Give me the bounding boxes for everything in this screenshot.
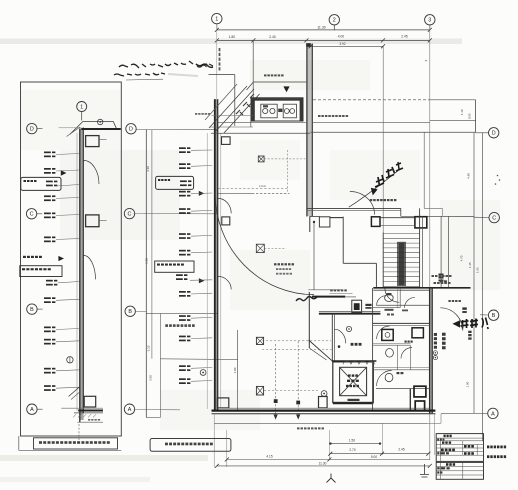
plan left inner line lower [159, 313, 161, 417]
hatch under ground [73, 414, 76, 417]
bolt note marks [23, 256, 26, 258]
south wall inner line [212, 413, 436, 415]
L leader dashed line [218, 188, 287, 190]
panel bottom band left edge [18, 436, 20, 450]
hall east wall lower [308, 292, 310, 348]
svg-text:2.45: 2.45 [401, 35, 408, 39]
toilet double line y367 [373, 367, 430, 369]
right dim vertical 2 [482, 133, 484, 441]
front wall thin segment [345, 296, 356, 298]
dashed drop v2 [297, 341, 299, 417]
svg-text:L=1m: L=1m [259, 184, 267, 188]
row marker A right [488, 408, 498, 418]
island thin line [308, 289, 342, 291]
lobby door arc [334, 329, 345, 343]
leader p7 [190, 279, 212, 282]
right corridor door arc [440, 308, 463, 331]
floor line 3 [211, 132, 310, 134]
attention note 1 arrow [371, 188, 378, 196]
diamond v2 [296, 401, 300, 405]
left panel label ticks r11 [44, 368, 51, 370]
leader r10 [56, 341, 80, 342]
left panel border [21, 82, 122, 436]
corridor wall C row upper [307, 207, 401, 209]
handwritten area number [296, 297, 317, 302]
row marker C mid [124, 208, 134, 218]
corridor door arc C [350, 191, 375, 214]
EV label text [348, 374, 351, 376]
svg-text:1.50: 1.50 [349, 438, 355, 442]
right dim vertical 1 [473, 133, 475, 414]
ramp diagonal 2 [216, 89, 254, 131]
dashed opening line h2 [262, 349, 332, 351]
front wall thick segment [312, 296, 345, 298]
bottom closure left margin [146, 417, 160, 419]
svg-text:3.92: 3.92 [339, 42, 345, 46]
left panel title box [34, 438, 118, 449]
toilet door arc 5 [401, 348, 412, 359]
svg-text:11.30: 11.30 [319, 462, 327, 466]
svg-text:4.45: 4.45 [466, 173, 470, 179]
toilet door arc 2 [377, 326, 390, 339]
glass thin line [76, 133, 78, 411]
panel bottom band line [19, 449, 122, 451]
toilet west wall [372, 288, 374, 410]
hall big door arc [215, 193, 314, 294]
grid bubble 1 [212, 13, 222, 23]
left panel label ticks r8 [44, 297, 51, 299]
EV cross diagonal 1 [340, 367, 367, 395]
damper box SW1 [256, 337, 263, 344]
row marker A left [27, 404, 37, 414]
ticks below box2 [46, 280, 53, 282]
EV door sill marks [348, 399, 360, 401]
leader p8 [191, 292, 212, 295]
ground symbol 1 [327, 474, 336, 483]
svg-text:4.15: 4.15 [266, 455, 272, 459]
ground symbol 3 [420, 464, 429, 477]
toilet east wall dark band [430, 288, 433, 413]
left panel label ticks r10 [44, 339, 51, 341]
extension tick box at wall top [306, 43, 311, 47]
ground line thick [61, 407, 103, 409]
row marker B right [488, 310, 498, 320]
washbasin dark box [382, 329, 393, 340]
column C1 [319, 217, 330, 227]
stair side labels [432, 275, 435, 277]
handwritten mark upper left [197, 65, 207, 67]
svg-text:5.00: 5.00 [371, 455, 377, 459]
plan label ticks p8 [179, 291, 186, 293]
scan streak top [0, 39, 462, 45]
svg-text:C: C [128, 212, 132, 218]
plan D-row leader line [136, 129, 218, 131]
roof access box outline [209, 74, 235, 76]
stair center strip border [398, 242, 406, 285]
arrow marker 2 [58, 256, 64, 261]
wall interior face line [220, 133, 222, 408]
ticks in box1 [46, 181, 53, 183]
corridor east of stair v1 [440, 216, 442, 287]
handwritten note line1 [119, 64, 155, 68]
svg-text:1.65: 1.65 [476, 267, 480, 273]
svg-text:B: B [492, 313, 496, 319]
leader p3 [191, 192, 212, 195]
right small top text [440, 280, 443, 282]
machine fixture group 2 [283, 104, 296, 118]
west wall door arc 1 [218, 198, 231, 213]
dim line third tier [311, 45, 384, 47]
svg-text:1.00: 1.00 [233, 367, 237, 373]
dashed centerline below wall [78, 424, 80, 440]
panel grid circle small [98, 119, 103, 124]
wall top cap trapezoid [70, 122, 117, 135]
row marker A mid [124, 404, 134, 414]
column S mid hollow [319, 397, 328, 408]
handwritten note underline [126, 78, 163, 81]
arrow marker plan 2 [199, 278, 205, 283]
fan box upper [86, 136, 99, 147]
east wall segment upper right [423, 132, 425, 208]
scan streak bottom2 [0, 477, 150, 482]
machine room right dark band [300, 98, 303, 121]
leader p10 [191, 337, 212, 340]
leader p9 [191, 316, 212, 319]
east upper room line [430, 120, 476, 122]
duct side marks [365, 304, 371, 306]
svg-text:1: 1 [215, 17, 218, 23]
leader r6 [56, 239, 80, 240]
duct box DS [352, 300, 362, 312]
plan label ticks p11 [179, 365, 186, 367]
plan label ticks p1 [179, 147, 186, 149]
room divider vertical [237, 330, 239, 410]
ticks in plan box1 [180, 180, 187, 182]
stair treads [383, 233, 419, 235]
dashed opening line h1 [262, 340, 331, 342]
leader r3 [56, 185, 80, 187]
exhaust tower label [318, 115, 321, 117]
svg-text:1.50: 1.50 [145, 258, 149, 264]
machine connector marks [278, 109, 282, 112]
toilet partition y388 [376, 388, 430, 390]
plan left edge line [145, 130, 147, 418]
left panel label ticks r5 [44, 213, 51, 215]
svg-text:A: A [128, 407, 132, 413]
corridor wall step [400, 208, 402, 216]
wall between C2 C3 [380, 217, 415, 219]
east wall top verticals [306, 44, 308, 217]
WC oval 2 [386, 349, 394, 358]
leader p12 [191, 380, 212, 383]
wall segment C1 to stair [330, 217, 343, 219]
ramp diagonal 1 [209, 86, 247, 128]
grid bubble 2 [329, 15, 339, 25]
east corridor mid line [313, 122, 430, 124]
damper box SW2 [256, 386, 263, 395]
diamond v1 [274, 399, 278, 403]
toilet partition y305 [376, 304, 429, 306]
ramp diagonal 3 [224, 94, 260, 133]
svg-text:1: 1 [80, 104, 83, 110]
dim line second tier [217, 39, 430, 41]
toilet partition y345 [373, 344, 411, 346]
right rotated tiny text 2 [468, 331, 471, 333]
dim extension stairline [381, 423, 383, 455]
machine room west wall upper [252, 40, 254, 97]
landing thick wall [373, 287, 470, 289]
machine label row [264, 74, 267, 76]
corridor wall C row right [401, 215, 474, 217]
plan label ticks p3 [179, 191, 186, 193]
attention note right characters [461, 319, 469, 329]
right tiny marks [439, 274, 444, 276]
leader p2 [191, 165, 212, 168]
right rotated tiny text 1 [442, 333, 446, 336]
arrow v1 [274, 415, 278, 420]
left panel label ticks r9 [44, 327, 51, 329]
table2 texts [446, 463, 448, 466]
below-ground dash line [77, 421, 103, 423]
dim circles row [331, 443, 381, 445]
svg-text:C: C [492, 216, 496, 222]
svg-text:1.15: 1.15 [468, 262, 472, 268]
arrow v2 [296, 415, 300, 420]
small right corner lines [424, 207, 442, 209]
leader p1 [191, 149, 212, 151]
island wall label [330, 289, 333, 291]
leader A row to plan [134, 409, 180, 411]
main west wall outer [214, 99, 216, 411]
table1 texts [444, 435, 446, 438]
dim extension right [434, 414, 436, 455]
damper box upper with X [258, 156, 264, 162]
text below wall [297, 427, 300, 429]
leader r4 [56, 197, 80, 200]
grid bubble 1 left panel [77, 102, 87, 112]
south wall thick [212, 409, 436, 411]
side annotation 1 [487, 446, 489, 449]
row marker B left [27, 304, 37, 314]
east corridor top line [313, 99, 430, 101]
curtain wall mullion left line [79, 129, 81, 423]
main west wall dark band [214, 99, 218, 410]
hall label text [351, 343, 354, 346]
left panel label ticks r4 [44, 195, 51, 197]
south east step [427, 422, 441, 424]
plan label box 1 [156, 176, 194, 189]
plan label ticks p9 [179, 315, 186, 317]
column C3 dark [415, 217, 427, 228]
east room line y132 [311, 131, 476, 133]
toilet door arc 3 [377, 371, 392, 387]
dim row total [217, 465, 430, 467]
circle dot symbol lobby [346, 326, 351, 331]
side annotation 2 [487, 455, 489, 458]
hall diagonal wall [309, 340, 332, 361]
EV cab box [340, 367, 367, 395]
attention note right arrowhead [452, 320, 460, 327]
grid1 vertical label column [216, 25, 218, 100]
svg-text:B: B [128, 309, 132, 315]
row marker D right [489, 128, 499, 138]
machine room top dark band [251, 98, 302, 101]
grid line 2 upper segment [382, 46, 384, 232]
arrow marker plan 1 [199, 191, 204, 196]
svg-text:1.10: 1.10 [460, 109, 464, 115]
plan small text row [165, 324, 168, 327]
base detail box [84, 396, 96, 407]
WC oval 1 [385, 294, 394, 301]
dashed line from damper mid [264, 247, 286, 249]
legend table 2 [436, 462, 483, 479]
row marker B mid [125, 306, 135, 316]
svg-text:A: A [491, 411, 495, 417]
ramp rotated text [236, 94, 254, 115]
dim row 2 [330, 453, 428, 455]
svg-text:D: D [129, 127, 133, 133]
stair east wall [419, 208, 421, 288]
plan label ticks p6 [179, 250, 186, 252]
attention note 1 handwritten [375, 175, 384, 187]
stair landing wall [343, 262, 376, 264]
vent circles right wall [433, 351, 437, 355]
scan streak bottom [0, 455, 208, 461]
machine room box [251, 98, 303, 121]
circle symbol plan margin [200, 370, 206, 376]
floor line below machine room [218, 122, 306, 124]
hall west wall of EV lobby [331, 314, 333, 361]
toilet east wall inner [431, 288, 433, 413]
toilet inner v1 [399, 288, 401, 308]
row marker C left [26, 209, 36, 219]
left panel label ticks r2 [44, 168, 51, 170]
east wall dark band [307, 44, 313, 217]
row marker C right [489, 212, 499, 222]
svg-text:3.10: 3.10 [147, 345, 151, 351]
toilet small fixture marks [385, 309, 394, 311]
dashed h from damper3 [264, 390, 318, 392]
note1 leader arc [349, 171, 398, 207]
svg-text:3.50: 3.50 [148, 375, 152, 381]
EV bottom wall [333, 402, 374, 404]
column SW hollow [217, 398, 228, 408]
stair center dark strip [398, 243, 405, 285]
toilet partition y369 [373, 369, 430, 371]
svg-text:3: 3 [428, 18, 431, 24]
dim extension mid [328, 430, 330, 460]
stair west wall [382, 233, 384, 289]
svg-text:2.70: 2.70 [349, 448, 355, 452]
door swing arc upper [84, 160, 100, 184]
vent arrow down [283, 86, 289, 92]
leader p11 [191, 367, 212, 370]
svg-text:C: C [30, 212, 34, 218]
handwritten note line2 [114, 74, 141, 76]
dashed drop v1 [275, 344, 277, 417]
toilet partition y307 [373, 307, 401, 309]
wall box mid [222, 217, 230, 225]
left panel label ticks r1 [44, 152, 51, 154]
handwritten note line1b dark [196, 64, 213, 67]
east extension right edge [475, 100, 477, 133]
storage label right [448, 300, 450, 302]
leader r11 [56, 370, 80, 371]
corridor east of stair v2 [447, 216, 449, 287]
west wall door arc 2 [218, 276, 231, 289]
urinal dark rect 2 [415, 401, 424, 410]
machine room left dark band [251, 98, 254, 121]
grid line 3 long vertical [429, 25, 431, 460]
plan title box [150, 439, 231, 452]
plan C-row leader line [134, 213, 218, 215]
leader p4 [191, 209, 212, 212]
ramp diagonal 4 [205, 84, 237, 120]
small platform box [222, 137, 231, 145]
toilet door arc 1 [377, 296, 387, 306]
svg-text:1.80: 1.80 [229, 35, 236, 39]
svg-text:4.00: 4.00 [338, 35, 345, 39]
plan label ticks p4 [179, 208, 186, 210]
dashed line from damper upper [264, 158, 305, 160]
WC oval 3 [385, 373, 393, 381]
toilet partition y323 double [373, 322, 430, 324]
svg-text:1.60: 1.60 [465, 381, 469, 387]
left panel label ticks r6 [44, 237, 51, 239]
stair landing wall v [375, 263, 377, 288]
row marker D mid [126, 124, 136, 134]
dim row 3 [227, 459, 430, 461]
leader r8 [56, 299, 80, 300]
leader r5 [56, 215, 80, 216]
EV curtain scallops [343, 362, 375, 365]
plan label ticks p7 [176, 274, 183, 276]
plan label ticks p5 [179, 233, 186, 235]
dark dot hall [338, 345, 341, 348]
plan label ticks p2 [179, 163, 186, 165]
duct leader label left [195, 113, 197, 115]
row marker D left [27, 123, 37, 133]
curtain wall dark band [79, 129, 83, 421]
svg-text:2.45: 2.45 [398, 448, 404, 452]
svg-text:A: A [30, 407, 34, 413]
hall row wall thick [319, 313, 381, 315]
svg-text:2.40: 2.40 [269, 35, 276, 39]
room label text [274, 263, 277, 265]
wall stub west of column C1 [310, 215, 320, 217]
leader p5 [191, 234, 212, 237]
leader r1 [56, 154, 80, 155]
svg-text:11.30: 11.30 [317, 25, 326, 29]
plan label box 2 [155, 261, 194, 272]
row line mid level [160, 358, 237, 361]
hall top line with L label [218, 192, 252, 194]
urinal dark rect 1 [414, 386, 426, 397]
svg-text:B: B [30, 307, 34, 313]
toilet inner v2 [410, 345, 412, 370]
arrow marker 1 [61, 170, 67, 175]
plan left inner line [151, 130, 153, 359]
stray dot [425, 60, 427, 62]
svg-text:4.40: 4.40 [146, 166, 150, 172]
left panel label box 1 [21, 177, 61, 190]
wall top thick header line [81, 128, 121, 130]
EV top thick wall [332, 360, 377, 362]
toilet door arc 4 [405, 297, 416, 308]
glass line west [206, 133, 208, 409]
left panel label box 2 [20, 266, 62, 277]
machine fixture group 1 [261, 104, 277, 118]
